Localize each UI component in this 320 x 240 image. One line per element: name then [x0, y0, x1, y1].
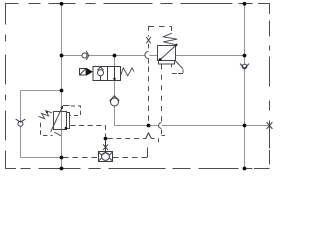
RV1 drain dashed line (x=161.5) [152, 64, 165, 142]
node main line right [243, 54, 247, 58]
border corners [6, 4, 270, 169]
vertical link node to orifice with plug X [105, 139, 107, 153]
wire: bypass branch left y=90.5 [21, 90, 62, 92]
drain dashed line y=157.5 [63, 157, 148, 159]
node top-left junction [60, 2, 64, 6]
check valve CV4 on right supply line [240, 64, 249, 69]
pilot drain corner line [147, 147, 149, 157]
wire: main pressure line y=55.5 to relief valve [62, 55, 146, 57]
wire: relief valve outlet to right supply node [176, 55, 245, 57]
hop of pilot over main line [145, 52, 149, 59]
node top-right junction [243, 2, 247, 6]
node main line left [60, 54, 64, 58]
node bottom border left [60, 167, 64, 171]
node pilot junction on lower line [147, 124, 151, 128]
node main line at solenoid branch [113, 54, 117, 58]
node orifice pilot junction [104, 137, 108, 141]
relief valve RV2 (lower left) body [54, 112, 70, 130]
plug X at right border on lower line [267, 122, 273, 129]
wire: solenoid valve bottom to check valve and down [114, 81, 116, 99]
RV1 pilot dashes right [171, 64, 183, 73]
check valve CV2 below solenoid valve [110, 96, 120, 106]
RV1 spring [163, 33, 177, 45]
RV2 pilot tail tick [54, 132, 61, 136]
RV2 outlet pilot dashed to orifice branch [71, 126, 106, 137]
RV2 pilot line to right [63, 105, 70, 107]
wire: branch down into solenoid valve [114, 56, 116, 67]
solenoid valve SV1 2/2 [93, 67, 121, 81]
RV1 inlet dot [159, 58, 162, 61]
node lower line right [243, 124, 247, 128]
node drain line left [60, 156, 64, 160]
spring of solenoid valve [121, 68, 135, 76]
pilot dashed: orifice node to arrow [108, 138, 146, 140]
check valve CV3 on bypass line [16, 119, 26, 126]
node bypass branch [60, 89, 64, 93]
RV2 adjustment arrow [51, 106, 63, 132]
wire: lower horizontal line y=125.5 [115, 125, 160, 127]
RV2 side chamber bracket [67, 113, 70, 129]
plug X on pilot vent line [146, 37, 150, 43]
node bottom border right [243, 167, 247, 171]
RV1 lower chamber bracket [159, 61, 175, 65]
wire: left supply vertical x=61.5 from top border to bottom border [21, 4, 270, 169]
solenoid coil actuator [80, 69, 87, 76]
RV2 outlet dot [65, 127, 68, 130]
relief valve RV1 (upper right) body [158, 46, 176, 65]
pilot vent dashed line top (x=148.5) [145, 26, 172, 124]
check valve CV1 inline on main line [82, 51, 89, 60]
orifice OR1 [99, 152, 113, 162]
hop of drain over lower line [159, 123, 162, 129]
RV1 adjustment arrow [160, 45, 176, 60]
wire: right supply vertical x=244.5 [244, 4, 246, 169]
port dot inside solenoid valve [113, 78, 115, 80]
plug X above orifice [103, 144, 108, 149]
RV1 pilot tap diagonal from lower-right corner [176, 61, 183, 69]
RV2 spring drain dashed [41, 123, 53, 136]
pilot arrow up to node [146, 133, 152, 139]
RV2 spring [39, 111, 52, 119]
manifold enclosure dashed border [6, 4, 270, 169]
